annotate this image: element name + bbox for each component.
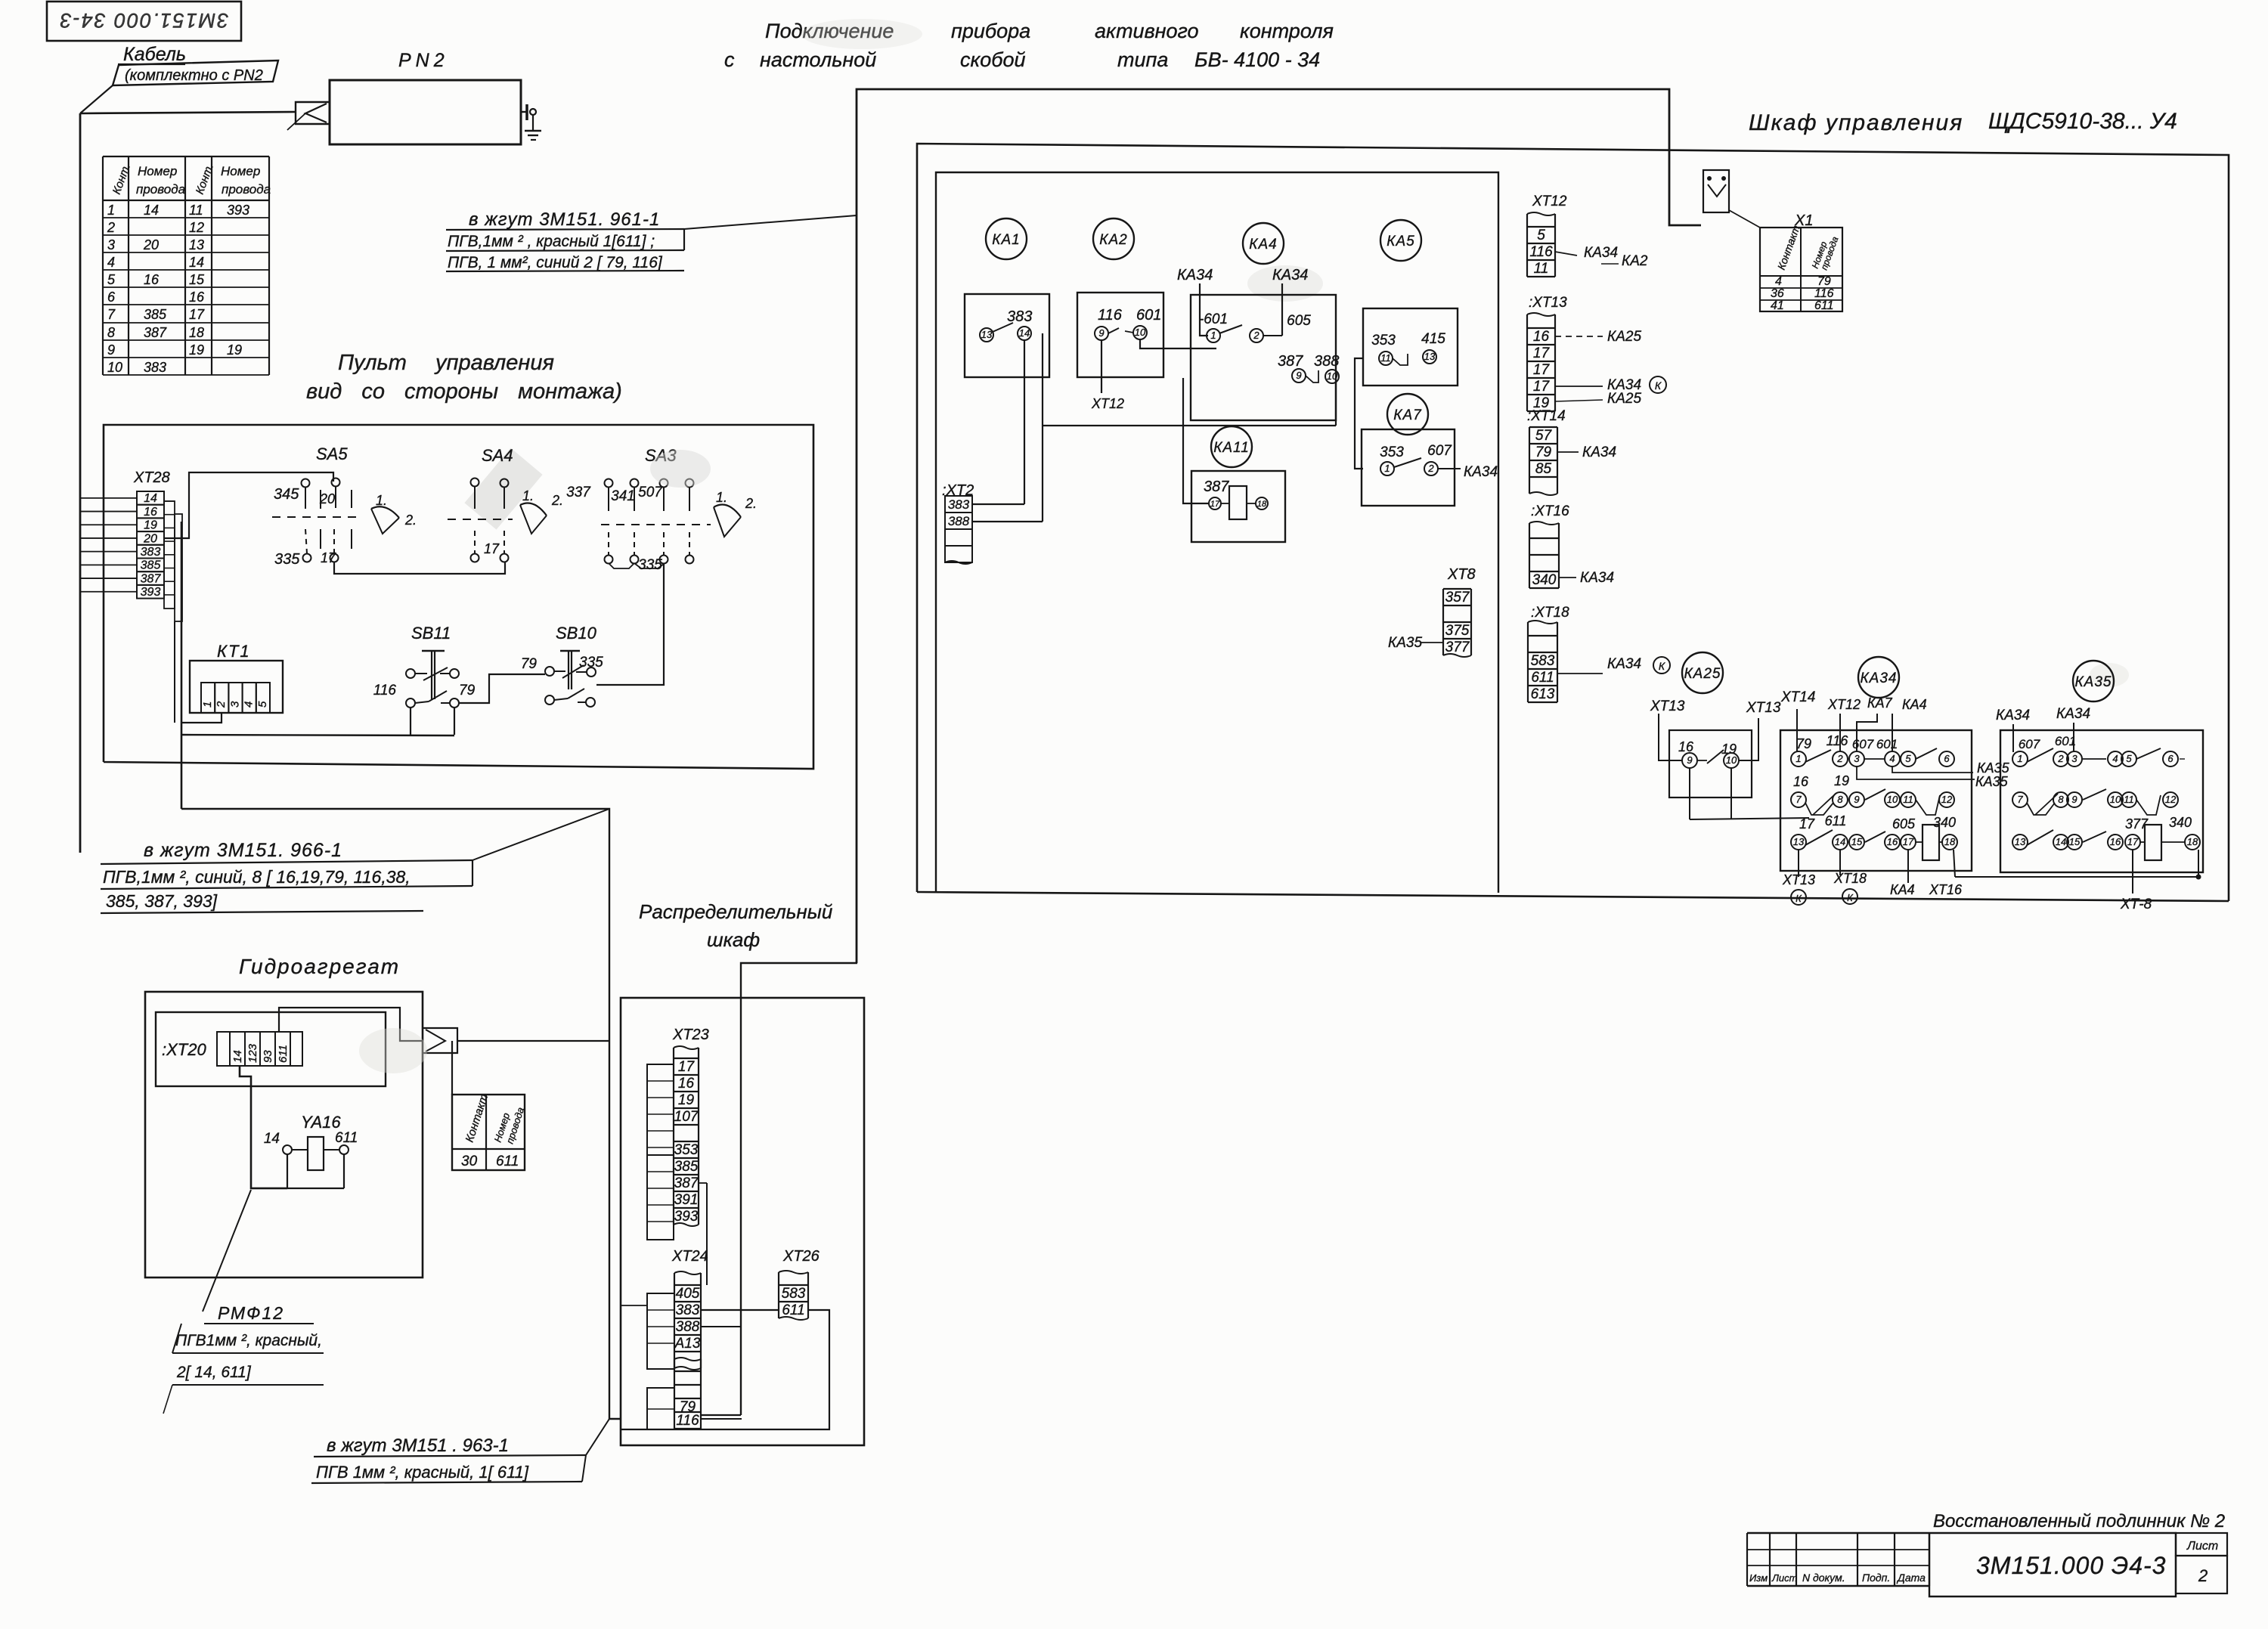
- svg-text:КТ1: КТ1: [217, 642, 251, 661]
- svg-text:активного: активного: [1095, 20, 1199, 42]
- svg-text:385: 385: [141, 559, 161, 572]
- svg-text:Гидроагрегат: Гидроагрегат: [239, 955, 400, 978]
- svg-text:353: 353: [1371, 333, 1396, 348]
- svg-text:БВ- 4100 - 34: БВ- 4100 - 34: [1194, 48, 1320, 71]
- svg-text:КА34: КА34: [1584, 245, 1618, 261]
- svg-text:601: 601: [1136, 307, 1161, 324]
- svg-text:прибора: прибора: [951, 20, 1030, 42]
- svg-text:ХТ28: ХТ28: [133, 469, 170, 486]
- svg-text:79: 79: [1796, 736, 1811, 751]
- svg-text:КА34: КА34: [1177, 267, 1213, 283]
- svg-text:1: 1: [107, 203, 115, 218]
- svg-text:2[ 14, 611]: 2[ 14, 611]: [176, 1364, 252, 1381]
- svg-text:14: 14: [1835, 836, 1845, 847]
- svg-text:4: 4: [1889, 753, 1895, 764]
- svg-text:9: 9: [1098, 327, 1104, 339]
- svg-text:в жгут 3М151. 966-1: в жгут 3М151. 966-1: [144, 840, 342, 861]
- svg-text:1.: 1.: [522, 488, 534, 503]
- svg-text:30: 30: [461, 1154, 478, 1169]
- svg-text:19: 19: [144, 519, 157, 532]
- svg-text:20: 20: [143, 237, 159, 252]
- svg-text:385: 385: [674, 1159, 699, 1175]
- svg-text:383: 383: [676, 1302, 700, 1318]
- svg-text:19: 19: [227, 342, 242, 358]
- svg-text::ХТ14: :ХТ14: [1527, 408, 1566, 424]
- svg-text:Пульт управления: Пульт управления: [338, 351, 554, 375]
- svg-text:SA5: SA5: [316, 444, 348, 463]
- svg-text:16: 16: [2110, 836, 2121, 847]
- svg-text:2.: 2.: [745, 496, 757, 511]
- svg-text:ХТ8: ХТ8: [1447, 566, 1476, 583]
- svg-text:-601: -601: [1199, 311, 1228, 327]
- svg-text:611: 611: [1531, 670, 1554, 686]
- svg-text:79: 79: [1535, 444, 1552, 460]
- svg-text:607: 607: [1852, 737, 1874, 751]
- svg-text:15: 15: [189, 272, 205, 287]
- svg-text:405: 405: [676, 1286, 700, 1302]
- svg-text:18: 18: [2187, 836, 2198, 847]
- svg-text:341: 341: [611, 488, 635, 504]
- svg-text:настольной: настольной: [760, 48, 876, 71]
- svg-text:19: 19: [189, 342, 204, 358]
- svg-text:в жгут 3М151 . 963-1: в жгут 3М151 . 963-1: [327, 1435, 509, 1456]
- svg-text:7: 7: [2017, 794, 2023, 805]
- svg-text:9: 9: [1296, 370, 1301, 381]
- svg-text:РМФ12: РМФ12: [218, 1303, 284, 1323]
- svg-text:16: 16: [1793, 774, 1809, 789]
- svg-text:КА34: КА34: [1464, 464, 1498, 480]
- svg-text:393: 393: [227, 203, 249, 218]
- svg-text:18: 18: [1944, 836, 1956, 847]
- svg-text:385, 387, 393]: 385, 387, 393]: [106, 891, 218, 911]
- svg-text:16: 16: [189, 290, 205, 305]
- svg-text:357: 357: [1445, 590, 1470, 605]
- svg-text:36: 36: [1771, 287, 1784, 300]
- svg-text:ХТ24: ХТ24: [671, 1248, 708, 1265]
- svg-text:Распределительный: Распределительный: [639, 900, 832, 923]
- svg-text:20: 20: [319, 491, 335, 506]
- svg-text:17: 17: [1533, 379, 1551, 395]
- svg-text:383: 383: [1007, 308, 1032, 325]
- svg-text:3: 3: [2071, 753, 2077, 764]
- svg-text:2.: 2.: [551, 493, 563, 508]
- svg-text:123: 123: [246, 1043, 259, 1063]
- svg-text:611: 611: [782, 1302, 804, 1318]
- svg-text:387: 387: [1204, 478, 1229, 495]
- svg-text:ПГВ,1мм ² , красный 1[611] ;: ПГВ,1мм ² , красный 1[611] ;: [448, 233, 655, 250]
- svg-text:10: 10: [1135, 327, 1146, 338]
- svg-text:ПГВ,1мм ², синий, 8 [ 16,19,: ПГВ,1мм ², синий, 8 [ 16,19,79, 116,38,: [103, 867, 411, 887]
- svg-text::ХТ18: :ХТ18: [1531, 605, 1569, 621]
- svg-text:4: 4: [243, 701, 256, 708]
- svg-text:КА35: КА35: [1388, 635, 1422, 651]
- svg-text:в жгут 3М151. 961-1: в жгут 3М151. 961-1: [469, 209, 660, 230]
- svg-text:КА35: КА35: [2074, 674, 2112, 690]
- svg-text:415: 415: [1421, 331, 1445, 347]
- svg-text:1: 1: [1384, 463, 1390, 474]
- svg-text:5: 5: [2126, 753, 2132, 764]
- svg-text::ХТ20: :ХТ20: [162, 1040, 206, 1059]
- svg-text:17: 17: [2127, 836, 2139, 847]
- svg-text:SB10: SB10: [556, 624, 597, 643]
- svg-text:17: 17: [1210, 500, 1220, 509]
- svg-text:607: 607: [1427, 443, 1452, 459]
- svg-text:вид со стороны монтажа): вид со стороны монтажа): [306, 379, 622, 404]
- svg-text:КА35: КА35: [1975, 774, 2009, 789]
- svg-text:3: 3: [1854, 753, 1860, 764]
- svg-text:КА25: КА25: [1607, 329, 1641, 345]
- svg-text:ХТ23: ХТ23: [672, 1027, 709, 1043]
- svg-text:385: 385: [144, 307, 167, 322]
- svg-text:Номер: Номер: [221, 164, 260, 178]
- svg-text:583: 583: [1531, 653, 1555, 669]
- svg-text:17: 17: [189, 307, 205, 322]
- svg-text:345: 345: [274, 486, 299, 503]
- svg-text:7: 7: [1795, 794, 1802, 805]
- svg-text:41: 41: [1771, 299, 1784, 312]
- svg-text:116: 116: [1098, 307, 1123, 324]
- svg-text:387: 387: [144, 325, 167, 340]
- svg-text:13: 13: [1793, 836, 1805, 847]
- svg-text:583: 583: [782, 1286, 806, 1302]
- svg-text:КА11: КА11: [1213, 440, 1250, 456]
- svg-text:11: 11: [2124, 794, 2134, 805]
- svg-text:3: 3: [228, 701, 241, 708]
- svg-text:2: 2: [215, 701, 228, 708]
- svg-text:ХТ13: ХТ13: [1746, 700, 1781, 716]
- svg-text:контроля: контроля: [1240, 20, 1334, 42]
- svg-text:611: 611: [1814, 299, 1834, 312]
- svg-text:388: 388: [948, 514, 970, 528]
- svg-text:18: 18: [189, 325, 204, 340]
- svg-text:17: 17: [1533, 345, 1551, 361]
- svg-text:57: 57: [1535, 428, 1553, 444]
- svg-text:116: 116: [373, 683, 397, 698]
- svg-text:613: 613: [1531, 686, 1555, 702]
- svg-text:провода: провода: [136, 182, 185, 197]
- svg-text:SA4: SA4: [482, 446, 513, 465]
- svg-text:388: 388: [1314, 353, 1339, 370]
- svg-text:PN2: PN2: [398, 50, 449, 71]
- svg-text:8: 8: [107, 325, 115, 340]
- svg-text:1: 1: [1210, 330, 1216, 341]
- svg-text:383: 383: [141, 546, 161, 559]
- svg-text:(комплектно с PN2: (комплектно с PN2: [125, 67, 263, 84]
- svg-text:6: 6: [107, 290, 116, 305]
- svg-text:353: 353: [674, 1142, 699, 1158]
- svg-text:3М151.000 34-3: 3М151.000 34-3: [59, 9, 229, 32]
- svg-text:КА34: КА34: [2056, 706, 2090, 722]
- svg-text:116: 116: [1814, 287, 1834, 300]
- svg-text:SB11: SB11: [411, 624, 451, 643]
- svg-text:9: 9: [107, 342, 115, 358]
- svg-text:17: 17: [1533, 362, 1551, 378]
- svg-text:ХТ26: ХТ26: [782, 1248, 820, 1265]
- svg-text:13: 13: [981, 329, 993, 340]
- svg-text:ПГВ1мм ², красный,: ПГВ1мм ², красный,: [175, 1332, 322, 1349]
- svg-text:16: 16: [678, 1076, 695, 1092]
- svg-text:340: 340: [2169, 815, 2192, 830]
- svg-text:116: 116: [1529, 244, 1553, 260]
- svg-text:ХТ14: ХТ14: [1780, 689, 1815, 705]
- svg-text:611: 611: [277, 1045, 290, 1063]
- svg-text:4: 4: [1775, 275, 1782, 288]
- svg-text:1: 1: [201, 701, 214, 708]
- svg-text:типа: типа: [1117, 48, 1168, 71]
- svg-text:ХТ12: ХТ12: [1532, 194, 1567, 209]
- svg-text:11: 11: [1903, 794, 1913, 805]
- svg-text:10: 10: [1726, 754, 1737, 766]
- svg-text:10: 10: [2110, 794, 2121, 805]
- svg-text:375: 375: [1445, 623, 1470, 639]
- svg-text:14: 14: [1019, 327, 1030, 339]
- svg-text:7: 7: [107, 307, 116, 322]
- svg-text:провода: провода: [222, 182, 271, 197]
- svg-text:Лист: Лист: [2186, 1540, 2218, 1553]
- svg-text:8: 8: [2058, 794, 2064, 805]
- svg-text:1.: 1.: [376, 493, 387, 508]
- svg-text:2: 2: [1836, 753, 1843, 764]
- svg-text:К: К: [1795, 893, 1802, 904]
- svg-text:КА25: КА25: [1684, 666, 1721, 682]
- svg-text:611: 611: [1825, 813, 1847, 828]
- svg-text:391: 391: [674, 1192, 699, 1208]
- svg-text:11: 11: [1380, 352, 1391, 364]
- svg-text:93: 93: [262, 1050, 274, 1063]
- svg-text:шкаф: шкаф: [707, 928, 760, 951]
- svg-text:2: 2: [2057, 753, 2064, 764]
- svg-text:ХТ18: ХТ18: [1833, 871, 1867, 886]
- svg-text:КА4: КА4: [1890, 882, 1915, 897]
- svg-text:Лист: Лист: [1771, 1572, 1798, 1584]
- svg-text:16: 16: [1887, 836, 1898, 847]
- svg-text:КА7: КА7: [1393, 407, 1422, 423]
- svg-text:5: 5: [256, 701, 269, 708]
- svg-text:1: 1: [1795, 753, 1801, 764]
- svg-text:14: 14: [231, 1050, 244, 1063]
- svg-text:КА1: КА1: [992, 232, 1020, 248]
- svg-text:КА34: КА34: [1582, 444, 1616, 460]
- svg-text:5: 5: [107, 272, 116, 287]
- svg-text:605: 605: [1287, 313, 1311, 329]
- svg-text:388: 388: [676, 1319, 700, 1335]
- svg-text:16: 16: [1678, 739, 1694, 754]
- svg-text:Изм: Изм: [1749, 1572, 1768, 1584]
- svg-text:ХТ12: ХТ12: [1827, 697, 1861, 712]
- svg-text:607: 607: [2019, 737, 2040, 751]
- svg-text:К: К: [1847, 892, 1854, 903]
- svg-text:5: 5: [1537, 228, 1545, 243]
- svg-text:А13: А13: [674, 1336, 701, 1352]
- svg-text:17: 17: [678, 1059, 696, 1075]
- svg-text:Номер: Номер: [138, 164, 177, 178]
- svg-text:10: 10: [1327, 370, 1338, 382]
- svg-text:11: 11: [189, 203, 203, 218]
- svg-text:340: 340: [1933, 815, 1956, 830]
- svg-text:КА5: КА5: [1387, 234, 1414, 249]
- svg-text:Восстановленный подлинник № 2: Восстановленный подлинник № 2: [1933, 1511, 2225, 1531]
- svg-text:611: 611: [496, 1154, 519, 1169]
- svg-text:16: 16: [144, 506, 157, 519]
- svg-text:79: 79: [459, 683, 476, 698]
- svg-text:9: 9: [2071, 794, 2077, 805]
- svg-text:17: 17: [484, 541, 500, 556]
- svg-text:скобой: скобой: [960, 48, 1025, 71]
- svg-text:393: 393: [674, 1209, 699, 1225]
- svg-text:17: 17: [1799, 816, 1815, 832]
- svg-text:КА2: КА2: [1099, 232, 1127, 248]
- svg-text:ХТ13: ХТ13: [1650, 698, 1685, 714]
- svg-text:1: 1: [2017, 753, 2022, 764]
- svg-text:12: 12: [189, 220, 204, 235]
- svg-text:507: 507: [638, 485, 663, 500]
- svg-text:КА34: КА34: [1272, 267, 1308, 283]
- svg-text:601: 601: [1876, 737, 1898, 751]
- svg-text:N докум.: N докум.: [1802, 1572, 1845, 1584]
- svg-text:85: 85: [1535, 461, 1552, 477]
- svg-text:2: 2: [2198, 1566, 2208, 1585]
- svg-text:9: 9: [1854, 794, 1859, 805]
- svg-text:12: 12: [2165, 794, 2177, 805]
- svg-text:14: 14: [144, 203, 159, 218]
- svg-text:116: 116: [1826, 733, 1849, 748]
- svg-text:335: 335: [579, 655, 603, 670]
- svg-text:13: 13: [1424, 351, 1436, 362]
- svg-text:13: 13: [2015, 836, 2026, 847]
- svg-text:19: 19: [1834, 773, 1849, 788]
- svg-text::ХТ13: :ХТ13: [1529, 295, 1567, 311]
- svg-text:9: 9: [1687, 754, 1692, 766]
- svg-text:КА34: КА34: [1607, 656, 1641, 672]
- svg-text:605: 605: [1892, 816, 1916, 832]
- svg-text:337: 337: [566, 485, 591, 500]
- svg-text:Кабель: Кабель: [123, 44, 186, 65]
- svg-text:ЩДС5910-38... У4: ЩДС5910-38... У4: [1988, 109, 2177, 134]
- svg-text:ПГВ 1мм ², красный, 1[ 611]: ПГВ 1мм ², красный, 1[ 611]: [316, 1463, 529, 1482]
- svg-text:377: 377: [1445, 640, 1470, 655]
- svg-text:YA16: YA16: [301, 1113, 341, 1132]
- svg-text:3: 3: [107, 237, 115, 252]
- svg-text:393: 393: [141, 586, 161, 599]
- svg-text:КА4: КА4: [1249, 237, 1277, 252]
- svg-text:12: 12: [1941, 794, 1953, 805]
- svg-text:ХТ16: ХТ16: [1929, 882, 1963, 897]
- svg-text:КА4: КА4: [1902, 697, 1927, 712]
- svg-text:335: 335: [274, 551, 300, 568]
- svg-text:КА35: КА35: [1977, 760, 2010, 776]
- svg-text:К: К: [1655, 379, 1662, 392]
- svg-text::ХТ16: :ХТ16: [1531, 503, 1569, 519]
- svg-text:4: 4: [2112, 753, 2118, 764]
- svg-text:79: 79: [521, 656, 538, 672]
- svg-text:ХТ-8: ХТ-8: [2120, 897, 2152, 912]
- svg-text:15: 15: [1851, 836, 1863, 847]
- svg-text:ПГВ, 1 мм², синий 2 [ 79, 116]: ПГВ, 1 мм², синий 2 [ 79, 116]: [448, 254, 663, 271]
- svg-text:КА2: КА2: [1622, 253, 1648, 269]
- svg-text:17: 17: [1903, 836, 1914, 847]
- svg-text:116: 116: [676, 1413, 699, 1429]
- svg-text:1.: 1.: [716, 490, 727, 505]
- svg-text:2: 2: [107, 220, 115, 235]
- svg-text:13: 13: [189, 237, 204, 252]
- svg-text:2.: 2.: [404, 513, 417, 528]
- svg-text:19: 19: [678, 1092, 695, 1108]
- svg-text:11: 11: [1534, 261, 1549, 277]
- svg-text:16: 16: [144, 272, 160, 287]
- svg-text:КА7: КА7: [1867, 695, 1893, 711]
- svg-text:383: 383: [144, 360, 166, 375]
- svg-text:4: 4: [107, 255, 115, 270]
- svg-text:15: 15: [2069, 836, 2081, 847]
- svg-text:КА34: КА34: [1860, 670, 1897, 686]
- svg-text:10: 10: [107, 360, 122, 375]
- svg-text:5: 5: [1905, 753, 1911, 764]
- svg-text:2: 2: [1253, 330, 1259, 341]
- svg-text:К: К: [1659, 660, 1665, 672]
- svg-text:387: 387: [1278, 353, 1303, 370]
- svg-text:3М151.000 Э4-3: 3М151.000 Э4-3: [1976, 1552, 2166, 1579]
- svg-text:387: 387: [141, 572, 162, 585]
- svg-text:14: 14: [144, 492, 157, 505]
- svg-text:107: 107: [674, 1109, 699, 1125]
- svg-text:6: 6: [2167, 753, 2173, 764]
- svg-text:383: 383: [948, 497, 970, 512]
- svg-text:335: 335: [638, 557, 662, 573]
- svg-text:340: 340: [1532, 572, 1557, 588]
- svg-text:Дата: Дата: [1896, 1572, 1926, 1584]
- svg-text:14: 14: [2056, 836, 2066, 847]
- svg-text:353: 353: [1380, 444, 1404, 460]
- svg-text:18: 18: [1257, 500, 1267, 509]
- svg-text:14: 14: [189, 255, 204, 270]
- svg-text:16: 16: [1533, 329, 1550, 345]
- svg-text:14: 14: [264, 1131, 280, 1147]
- svg-text:79: 79: [1817, 275, 1831, 288]
- svg-text:с: с: [724, 48, 735, 71]
- svg-text:6: 6: [1944, 753, 1950, 764]
- svg-text:Шкаф управления: Шкаф управления: [1749, 110, 1963, 135]
- svg-text:КА25: КА25: [1607, 391, 1641, 407]
- svg-text:Подп.: Подп.: [1862, 1572, 1890, 1584]
- svg-text:КА34: КА34: [1996, 708, 2030, 723]
- svg-text:8: 8: [1837, 794, 1843, 805]
- svg-text:601: 601: [2055, 734, 2076, 748]
- svg-text:ХТ12: ХТ12: [1091, 396, 1124, 411]
- svg-text:387: 387: [674, 1175, 699, 1191]
- svg-text:2: 2: [1427, 463, 1434, 474]
- svg-text:611: 611: [335, 1130, 358, 1146]
- svg-text:10: 10: [1887, 794, 1898, 805]
- svg-text:20: 20: [143, 532, 157, 545]
- svg-text:КА34: КА34: [1580, 570, 1614, 586]
